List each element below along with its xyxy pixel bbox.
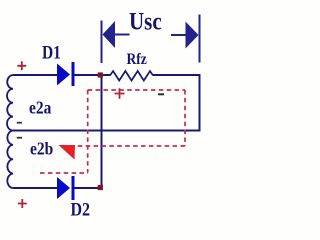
wire cathode bus vertical [101,75,103,188]
Usc right arrowhead [186,22,199,49]
Usc left arrowhead [103,21,116,48]
wire right vertical drop [199,74,201,132]
polarity - at e2a bottom [17,122,22,124]
junction node dot bottom [98,185,103,190]
dashed loop arrowhead (red) [59,145,76,160]
svg-text:e2a: e2a [29,97,52,117]
dashed current loop: lower run [76,145,185,147]
polarity + on dashed loop top [115,88,125,99]
label e2a [29,97,52,117]
inductor winding e2b [7,131,13,189]
wire resistor right lead to top-right corner [153,74,200,76]
label D2 [71,198,91,220]
Usc right arrow tail [171,34,186,36]
diode D1 triangle [57,64,70,86]
polarity + at e2a top [17,61,26,70]
wire bottom (anode of D2 from transformer) [13,187,57,189]
dashed current loop: left riser [87,90,89,173]
wire D2 cathode to node [75,187,102,189]
dashed current loop: bottom-left stub [40,172,88,174]
Usc dimension left terminal bar [101,21,103,64]
label Usc [129,8,162,36]
junction node dot top [98,72,103,77]
svg-text:D1: D1 [42,42,61,63]
svg-text:Rfz: Rfz [127,51,148,68]
label e2b [30,138,53,158]
svg-text:Usc: Usc [129,8,162,36]
svg-text:e2b: e2b [30,138,53,158]
inductor winding e2a [7,75,13,131]
diode D2 triangle [57,177,70,199]
diode D1 cathode bar [72,62,75,86]
Usc dimension right terminal bar [199,15,201,63]
wire top (anode of D1 from transformer) [13,74,57,76]
wire center-tap return [13,130,200,132]
Usc left arrow tail [115,34,130,36]
wire D1 cathode to node and resistor left lead [75,74,111,76]
diode D2 cathode bar [72,176,75,200]
label D1 [42,42,61,63]
dashed current loop: top run [88,89,185,91]
polarity - at e2b top [17,137,22,139]
svg-text:D2: D2 [71,198,91,220]
label Rfz [127,51,148,68]
dashed current loop: right drop [184,90,186,146]
polarity - on dashed loop top [158,93,164,95]
resistor Rfz zigzag [110,71,153,81]
polarity + at e2b bottom [18,199,27,208]
